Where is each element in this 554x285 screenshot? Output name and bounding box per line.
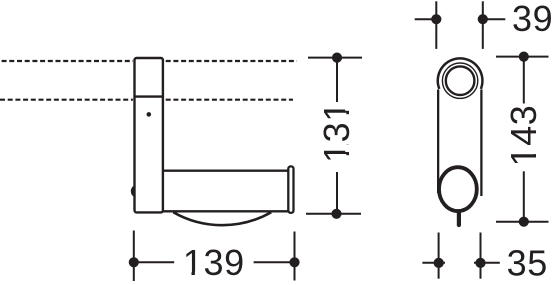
svg-text:39: 39 [512, 0, 553, 39]
svg-text:35: 35 [507, 243, 548, 284]
svg-text:139: 139 [183, 242, 245, 283]
svg-text:131: 131 [316, 101, 357, 163]
svg-text:143: 143 [503, 105, 544, 167]
